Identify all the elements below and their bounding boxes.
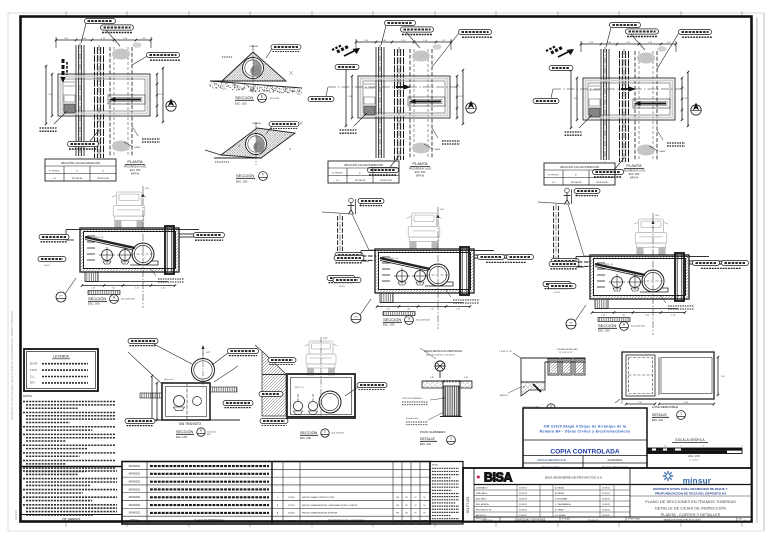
svg-text:357336.88: 357336.88: [571, 182, 582, 184]
svg-text:BISA: BISA: [484, 471, 513, 485]
svg-text:B.O.P.:: B.O.P.:: [30, 362, 38, 366]
seccion G label: [383, 316, 430, 327]
svg-text:09/04/2021: 09/04/2021: [129, 513, 141, 515]
svg-text:2.00: 2.00: [459, 96, 463, 98]
svg-text:2.00: 2.00: [48, 94, 52, 96]
losa removible label: [652, 405, 685, 422]
truck over seccion A: [112, 192, 147, 228]
svg-text:7230-IB-0023: 7230-IB-0023: [588, 520, 599, 522]
svg-text:(NPN 4): (NPN 4): [131, 173, 140, 175]
svg-text:E3: E3: [423, 505, 425, 507]
leyenda box: [24, 349, 98, 391]
svg-text:09/04/2021: 09/04/2021: [129, 466, 141, 468]
svg-text:PLANTA: PLANTA: [412, 161, 428, 166]
revision table: [122, 462, 430, 525]
svg-text:C.L.:: C.L.:: [30, 374, 36, 378]
svg-text:m: m: [289, 148, 291, 151]
svg-text:OR:31920 Etapa II Dique de Arr: OR:31920 Etapa II Dique de Arranque de l…: [544, 425, 628, 429]
svg-text:21/09/21: 21/09/21: [519, 510, 528, 512]
svg-text:N.PT: N.PT: [206, 352, 211, 354]
svg-text:(NPN 4): (NPN 4): [416, 175, 425, 177]
svg-text:Sumidero 8@: Sumidero 8@: [406, 418, 418, 420]
plan view 2 PROGRESIVA 1+100: [308, 20, 492, 183]
svg-text:(NPN +3): (NPN +3): [94, 237, 103, 239]
svg-text:ESC: 1/50: ESC: 1/50: [236, 180, 248, 183]
svg-text:TUBERIA: TUBERIA: [249, 45, 258, 48]
svg-text:A. MEZA: A. MEZA: [555, 487, 564, 490]
svg-text:UBICACIÓN CAJA DE INSPECCIÓN: UBICACIÓN CAJA DE INSPECCIÓN: [344, 164, 384, 167]
svg-text:FECHA: FECHA: [288, 520, 295, 523]
svg-text:09/04/2021: 09/04/2021: [129, 481, 141, 483]
svg-text:A. MEZA: A. MEZA: [555, 492, 564, 495]
svg-text:ESC: 1/20: ESC: 1/20: [420, 443, 432, 446]
seccion E label: [235, 94, 279, 106]
svg-text:03-21-0023: 03-21-0023: [270, 98, 279, 100]
title block: [463, 468, 752, 522]
svg-text:ESC: 1/20: ESC: 1/20: [652, 419, 664, 422]
svg-text:ESC. 1/50: ESC. 1/50: [689, 455, 701, 458]
svg-text:21/09/21: 21/09/21: [519, 488, 528, 490]
svg-text:ESC: 1/50: ESC: 1/50: [598, 330, 610, 333]
slope with person figure: [322, 212, 375, 250]
left margin vertical doc text: [10, 311, 18, 520]
svg-text:ESC: 1/50: ESC: 1/50: [176, 436, 188, 439]
svg-text:(NPN 4): (NPN 4): [630, 177, 639, 179]
notas text block: [23, 394, 115, 471]
slope to seccion H: [538, 188, 600, 289]
svg-text:SECCIÓN: SECCIÓN: [176, 429, 194, 434]
svg-text:1: 1: [680, 412, 682, 416]
svg-text:(NPN +3): (NPN +3): [604, 264, 613, 266]
svg-text:09/04/2021: 09/04/2021: [129, 497, 141, 499]
svg-text:DETALLE: DETALLE: [420, 437, 436, 441]
svg-text:POZO SUMIDERO: POZO SUMIDERO: [420, 430, 446, 434]
stair angle detail seccion X: [499, 348, 585, 415]
svg-text:21/09/21: 21/09/21: [602, 488, 611, 490]
svg-text:FECHA: FECHA: [130, 520, 139, 523]
seccion F embankment parallelogram: [221, 128, 295, 158]
svg-text:2.00: 2.00: [159, 94, 163, 96]
svg-text:CAMA: CAMA: [659, 150, 665, 153]
svg-text:L 3/16"x1 1/2": L 3/16"x1 1/2": [499, 351, 513, 353]
svg-text:Nº PLANO: Nº PLANO: [562, 517, 571, 520]
svg-text:PL 3/16"x1 1/2": PL 3/16"x1 1/2": [559, 352, 573, 354]
svg-text:SECCIÓN: SECCIÓN: [598, 323, 616, 328]
svg-text:SECCIÓN: SECCIÓN: [236, 173, 254, 178]
minsur logo: [663, 471, 673, 481]
escala grafica: [644, 438, 743, 462]
svg-text:21/09/2021: 21/09/2021: [607, 458, 622, 462]
svg-text:FECHA RECEPCION:: FECHA RECEPCION:: [537, 458, 567, 462]
svg-text:8425154.88: 8425154.88: [380, 180, 392, 182]
svg-text:Y. CASTAÑEDA: Y. CASTAÑEDA: [555, 503, 571, 506]
seccion A label: [88, 295, 135, 306]
svg-text:DESCRIPCION DE LA REVISION: DESCRIPCION DE LA REVISION: [328, 520, 364, 523]
truck over seccion G: [407, 213, 442, 249]
svg-text:PLANTA , CORTES Y DETALLES: PLANTA , CORTES Y DETALLES: [661, 512, 721, 517]
svg-text:SECCIÓN: SECCIÓN: [383, 317, 401, 322]
svg-text:(NPN +3): (NPN +3): [295, 387, 304, 389]
truck over seccion H: [634, 219, 669, 255]
svg-text:09/04/2021: 09/04/2021: [129, 474, 141, 476]
svg-text:UBICACIÓN CAJA DE INSPECCIÓN: UBICACIÓN CAJA DE INSPECCIÓN: [61, 162, 101, 165]
svg-text:2.00: 2.00: [573, 98, 577, 100]
svg-text:PROGRESIVA 1+760: PROGRESIVA 1+760: [623, 170, 646, 173]
svg-text:B. TINEO: B. TINEO: [555, 510, 565, 512]
svg-text:S=2%: S=2%: [554, 292, 560, 294]
svg-text:DETALLE: DETALLE: [652, 413, 668, 417]
svg-text:03-21-0023 0326: 03-21-0023 0326: [121, 299, 135, 301]
svg-text:29/03/21: 29/03/21: [288, 513, 295, 515]
svg-text:NOTA:: NOTA:: [432, 464, 438, 467]
svg-text:21/09/21: 21/09/21: [602, 504, 611, 506]
svg-text:PLANO DE REFERENCIA: PLANO DE REFERENCIA: [194, 520, 224, 523]
svg-text:ESC: 1/50: ESC: 1/50: [88, 303, 100, 306]
svg-text:E3: E3: [423, 513, 425, 515]
svg-text:PLANTA: PLANTA: [626, 163, 642, 168]
svg-text:ING. APROB.:: ING. APROB.:: [476, 503, 490, 506]
slope with person figure: [538, 202, 590, 256]
svg-text:21/05/21: 21/05/21: [288, 505, 295, 507]
svg-text:ESC: 1/50: ESC: 1/50: [235, 102, 247, 105]
svg-text:21/09/21: 21/09/21: [602, 499, 611, 501]
svg-text:N.P.: N.P.: [656, 215, 660, 217]
svg-text:21/09/21: 21/09/21: [602, 493, 611, 495]
svg-text:S=2%: S=2%: [339, 286, 345, 288]
svg-text:D3030C/1041-7230-09-0023: D3030C/1041-7230-09-0023: [515, 519, 546, 522]
svg-text:3R100-100-61979-7230-03-21-002: 3R100-100-61979-7230-03-21-0023: [664, 520, 702, 522]
svg-text:N° PUNTO: N° PUNTO: [548, 174, 559, 176]
seccion E embankment triangle: [222, 52, 286, 81]
svg-text:COPIA CONTROLADA: COPIA CONTROLADA: [550, 449, 620, 456]
svg-text:PROYECTO N°:: PROYECTO N°:: [476, 510, 492, 512]
svg-text:LEYENDA: LEYENDA: [53, 355, 70, 359]
svg-text:ESC: 1/50: ESC: 1/50: [383, 324, 395, 327]
plan view 1 PROGRESIVA 0+450: [40, 18, 181, 181]
svg-text:901-PT-021: 901-PT-021: [466, 496, 470, 513]
svg-text:PLANTA: PLANTA: [127, 159, 143, 164]
svg-text:UBICACIÓN CAJA DE INSPECCIÓN: UBICACIÓN CAJA DE INSPECCIÓN: [560, 166, 600, 169]
svg-text:TUBERIA: TUBERIA: [252, 122, 261, 125]
svg-text:0.40: 0.40: [464, 377, 468, 379]
svg-text:S=2%: S=2%: [44, 265, 50, 267]
bottom-left notes continuation: [22, 467, 122, 521]
svg-text:EMITIDO PARA REVISIÓN Y APROBA: EMITIDO PARA REVISIÓN Y APROBACIÓN DEL C…: [302, 504, 358, 507]
seccion C detail: [255, 337, 387, 440]
svg-text:ESC: 1/50: ESC: 1/50: [415, 172, 426, 174]
svg-text:ANGULO: ANGULO: [500, 394, 509, 397]
svg-text:N° PUNTO: N° PUNTO: [332, 172, 343, 174]
svg-text:VºBº GERENTE: VºBº GERENTE: [62, 517, 81, 521]
pozo sumidero detail: [402, 348, 472, 446]
svg-text:8425154.88: 8425154.88: [97, 178, 109, 180]
svg-text:2.00: 2.00: [348, 96, 352, 98]
svg-text:CAMA: CAMA: [134, 146, 140, 149]
svg-text:ESC: 1/50: ESC: 1/50: [300, 437, 312, 440]
sin transito detail: [125, 338, 259, 438]
svg-text:E3: E3: [423, 497, 425, 499]
svg-text:09/2021: 09/2021: [14, 509, 18, 520]
svg-text:03-21-0023 0326: 03-21-0023 0326: [631, 326, 645, 328]
svg-text:N.P.:: N.P.:: [30, 381, 36, 385]
BISA logo: [477, 476, 480, 479]
svg-text:21/09/21: 21/09/21: [519, 493, 528, 495]
svg-text:ESC: 1/50: ESC: 1/50: [130, 170, 141, 172]
svg-text:ESCALA GRÁFICA: ESCALA GRÁFICA: [675, 438, 705, 442]
svg-text:PROGRESIVA 0+450: PROGRESIVA 0+450: [124, 166, 147, 169]
svg-text:21/09/21: 21/09/21: [288, 497, 295, 499]
svg-text:Nº REF. PLANO: Nº REF. PLANO: [628, 517, 641, 520]
svg-text:DIBUJADO:: DIBUJADO:: [476, 492, 488, 495]
svg-text:CAMA: CAMA: [434, 148, 440, 151]
plan view 3 PROGRESIVA 1+760: [533, 22, 712, 185]
svg-text:SECCIÓN: SECCIÓN: [235, 95, 253, 100]
svg-text:ESC: 1/50: ESC: 1/50: [629, 174, 640, 176]
tiny notes cell: [430, 462, 463, 525]
seccion G view: [333, 207, 534, 329]
svg-text:2.00: 2.00: [684, 98, 688, 100]
svg-text:1: 1: [450, 437, 452, 441]
svg-text:N.PT: N.PT: [323, 338, 328, 340]
svg-text:(NPN +3): (NPN +3): [389, 258, 398, 260]
svg-text:21/09/21: 21/09/21: [602, 510, 611, 512]
svg-text:21/09/21: 21/09/21: [519, 499, 528, 501]
svg-text:F. MONTANI: F. MONTANI: [555, 498, 568, 501]
seccion H view: [548, 213, 749, 335]
svg-text:09/04/2021: 09/04/2021: [129, 489, 141, 491]
svg-text:LOSA REMOVIBLE: LOSA REMOVIBLE: [652, 405, 678, 409]
svg-text:(30cm min): (30cm min): [164, 379, 174, 381]
svg-text:DEPÓSITO ETAPA II DEL RECRECID: DEPÓSITO ETAPA II DEL RECRECIDO DE DIQUE…: [653, 486, 728, 491]
svg-text:DISEÑADO:: DISEÑADO:: [476, 487, 488, 490]
svg-text:PROFUNDIZACIÓN DE POZA DEL DEP: PROFUNDIZACIÓN DE POZA DEL DEPÓSITO B4: [655, 490, 726, 495]
svg-text:SECCIÓN: SECCIÓN: [88, 296, 106, 301]
svg-text:T.O.P.:: T.O.P.:: [30, 368, 38, 372]
svg-text:8425154.88: 8425154.88: [596, 182, 608, 184]
svg-text:357336.88: 357336.88: [72, 178, 83, 180]
svg-text:03-21-0023 0326: 03-21-0023 0326: [416, 320, 430, 322]
svg-text:N.P.: N.P.: [441, 209, 445, 211]
svg-text:NOTAS:: NOTAS:: [23, 394, 33, 398]
svg-text:F: F: [262, 173, 264, 177]
svg-text:EMITIDO PARA CONSTRUCCIÓN: EMITIDO PARA CONSTRUCCIÓN: [302, 496, 335, 499]
svg-text:DETALLE DE CAJAS DE INSPECCIÓN: DETALLE DE CAJAS DE INSPECCIÓN: [655, 506, 726, 511]
svg-text:SECCIÓN: SECCIÓN: [300, 430, 318, 435]
svg-text:0.40: 0.40: [430, 377, 434, 379]
seccion H label: [598, 322, 645, 333]
svg-text:PLANO DE SECCIONES EN TRAMOS T: PLANO DE SECCIONES EN TRAMOS TUBERIAS: [645, 499, 736, 504]
svg-text:N° PUNTO: N° PUNTO: [49, 170, 60, 172]
svg-text:D3030C/1041-7230-09-0023_REV0: D3030C/1041-7230-09-0023_REV0 PLANO DE S…: [10, 311, 14, 420]
slope to seccion G: [322, 198, 384, 283]
svg-text:09/04/2021: 09/04/2021: [129, 505, 141, 507]
seccion F label: [236, 172, 267, 184]
svg-text:357336.88: 357336.88: [355, 180, 366, 182]
svg-text:21/09/21: 21/09/21: [519, 504, 528, 506]
svg-text:Z: Z: [523, 385, 525, 389]
svg-text:PIEZAS METALICAS: PIEZAS METALICAS: [557, 348, 578, 351]
svg-text:(o según): (o según): [689, 460, 699, 462]
copia controlada stamp: [523, 408, 647, 470]
svg-text:ING. RES.:: ING. RES.:: [476, 499, 487, 501]
svg-text:minsur: minsur: [683, 477, 711, 486]
losa removible detail: [615, 352, 726, 405]
svg-text:G: G: [408, 317, 411, 321]
svg-text:PIEZAS METALICAS PERFORADA: PIEZAS METALICAS PERFORADA: [424, 350, 462, 353]
svg-text:BISA INGENIERÍA DE PROYECTOS S: BISA INGENIERÍA DE PROYECTOS S.A.: [545, 476, 603, 480]
svg-text:SIN TRANSITO: SIN TRANSITO: [179, 422, 202, 426]
svg-text:N.P.: N.P.: [146, 188, 150, 190]
svg-text:Relaara B4 - Obras Civiles y E: Relaara B4 - Obras Civiles y Electromecá…: [540, 430, 631, 434]
svg-text:POZO DE SUMIDERO: POZO DE SUMIDERO: [402, 398, 423, 400]
svg-text:C3030C/1041: C3030C/1041: [481, 520, 492, 522]
svg-text:PROGRESIVA 1+100: PROGRESIVA 1+100: [409, 168, 432, 171]
svg-text:03-21-0023 0326: 03-21-0023 0326: [331, 433, 344, 435]
seccion A view: [38, 186, 225, 308]
svg-text:EMITIDO PARA REVISIÓN INTERNA: EMITIDO PARA REVISIÓN INTERNA: [302, 512, 337, 515]
